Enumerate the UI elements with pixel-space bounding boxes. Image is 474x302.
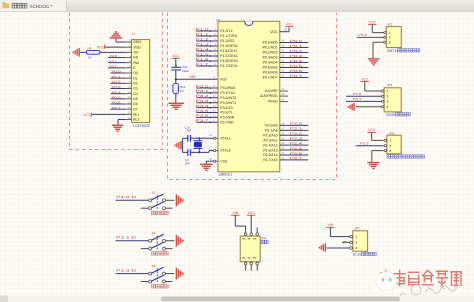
svg-text:25: 25 [281, 137, 284, 140]
svg-text:D2: D2 [133, 82, 138, 86]
svg-text:P2.0/A8: P2.0/A8 [265, 124, 278, 128]
svg-text:P3.2: P3.2 [196, 94, 210, 98]
wire XTAL2 net [183, 151, 214, 154]
svg-text:P2.3/A11: P2.3/A11 [263, 138, 277, 142]
svg-text:VIN: VIN [328, 223, 334, 227]
pin 29 PSEN stub [280, 99, 288, 102]
svg-text:P0.4: P0.4 [112, 90, 121, 94]
svg-text:P0.3: P0.3 [290, 54, 303, 58]
svg-text:JP1: JP1 [387, 83, 393, 87]
svg-text:22uF: 22uF [182, 69, 189, 73]
svg-text:P2.0: P2.0 [110, 54, 118, 58]
svg-text:VO: VO [133, 51, 138, 55]
svg-text:3: 3 [355, 246, 357, 250]
svg-text:3: 3 [389, 40, 391, 44]
svg-text:P1.2/ECI: P1.2/ECI [220, 39, 234, 43]
svg-text:P2.1: P2.1 [290, 127, 303, 131]
wire RST net [176, 78, 218, 80]
svg-text:P0.7/AD7: P0.7/AD7 [263, 76, 278, 80]
ui tab bar [0, 0, 474, 12]
wire P1.1 [196, 32, 219, 37]
wire P1.5 [196, 52, 219, 57]
svg-text:10: 10 [128, 86, 131, 89]
svg-text:P0.1: P0.1 [112, 75, 121, 79]
capacitor C9 [185, 149, 191, 165]
svg-text:34: 34 [281, 65, 284, 68]
wire LCD BL2 [118, 120, 126, 125]
svg-text:P3.3: P3.3 [196, 99, 210, 103]
wire P2.0 [280, 122, 309, 126]
svg-text:VCC: VCC [97, 45, 105, 49]
svg-text:P2.1: P2.1 [110, 59, 118, 63]
svg-text:P0.2/AD2: P0.2/AD2 [263, 51, 278, 55]
ground (VSS) [200, 164, 213, 171]
svg-text:35: 35 [281, 60, 284, 63]
wire P0.5 [280, 64, 309, 68]
connector JP3 [384, 131, 401, 154]
ground (JP2) [368, 58, 380, 65]
wire LCD D7 net P0.7 [111, 106, 126, 110]
svg-text:VCC: VCC [172, 54, 180, 58]
svg-text:P2.4/A12: P2.4/A12 [263, 143, 277, 147]
svg-text:VCC: VCC [270, 30, 278, 34]
wire JP2 pin2 net P3.2 [357, 33, 384, 37]
svg-text:36: 36 [281, 55, 284, 58]
svg-text:P0.0: P0.0 [290, 39, 303, 43]
svg-text:P1.4/CEX1: P1.4/CEX1 [220, 49, 237, 53]
svg-text:P1.1: P1.1 [196, 32, 210, 36]
svg-text:2: 2 [355, 241, 357, 245]
resistor R8 [87, 46, 101, 59]
svg-text:P3.5/T1: P3.5/T1 [220, 111, 232, 115]
ground arrow (JP7) [319, 243, 326, 252]
wire LCD GND [116, 41, 126, 43]
svg-text:P1.4: P1.4 [196, 47, 210, 51]
power port VCC (JP4) [247, 211, 255, 233]
wire P2.7 [280, 156, 309, 160]
svg-text:11: 11 [213, 90, 216, 93]
svg-text:14: 14 [128, 106, 131, 109]
svg-text:P0.1: P0.1 [290, 44, 303, 48]
svg-text:S2: S2 [152, 231, 156, 235]
svg-text:40: 40 [284, 29, 287, 32]
svg-text:VCC: VCC [248, 211, 256, 215]
svg-text:12: 12 [213, 95, 216, 98]
svg-text:VCC: VCC [286, 22, 294, 26]
pin 9 RST stub [214, 76, 216, 79]
svg-text:15: 15 [213, 110, 216, 113]
svg-text:P0.5/AD5: P0.5/AD5 [263, 66, 278, 70]
svg-text:P2.2/A10: P2.2/A10 [263, 133, 277, 137]
svg-text:P3.3/INT1: P3.3/INT1 [220, 101, 236, 105]
wire P2.5 [280, 146, 309, 150]
label relay module [387, 155, 425, 158]
svg-text:P2.7/A15: P2.7/A15 [263, 158, 277, 162]
svg-text:P3.7: P3.7 [196, 119, 210, 123]
wire P3.3 [196, 99, 219, 104]
wire JP4 pin3 stub [256, 227, 258, 233]
svg-text:1: 1 [389, 31, 391, 35]
svg-text:VCC: VCC [361, 77, 369, 81]
wire LCD VDD [105, 46, 125, 48]
wire LCD RS net P2.0 [108, 54, 126, 58]
svg-text:21: 21 [281, 157, 284, 160]
svg-text:4: 4 [387, 105, 389, 109]
connector JP1 [382, 83, 402, 112]
svg-text:24: 24 [281, 142, 284, 145]
svg-text:33: 33 [281, 70, 284, 73]
wire JP1 pin3 net P3.1 [346, 97, 382, 101]
svg-text:P1.2: P1.2 [196, 37, 210, 41]
svg-text:BL1: BL1 [133, 113, 139, 117]
svg-text:P2.1/A9: P2.1/A9 [265, 129, 278, 133]
wire P0.4 [280, 59, 309, 63]
svg-text:P0.6: P0.6 [112, 101, 121, 105]
svg-text:23: 23 [281, 147, 284, 150]
svg-text:D3: D3 [133, 87, 138, 91]
wire P0.3 [280, 54, 309, 58]
resistor R11 [173, 79, 186, 93]
svg-text:P2.2: P2.2 [290, 132, 303, 136]
svg-text:D0: D0 [133, 71, 138, 75]
svg-text:P3.7/RD: P3.7/RD [220, 121, 234, 125]
svg-text:P1.1 D: P1.1 D [116, 236, 138, 240]
svg-text:LCD1602: LCD1602 [133, 123, 151, 128]
svg-text:1: 1 [355, 235, 357, 239]
svg-text:16: 16 [213, 115, 216, 118]
wire P3.2 [196, 94, 219, 99]
svg-text:38: 38 [281, 45, 284, 48]
svg-text:P0.6: P0.6 [290, 69, 303, 73]
wire LCD D1 net P0.1 [111, 75, 126, 79]
wire JP3 pin1 [372, 139, 384, 141]
svg-text:R8: R8 [88, 46, 92, 50]
svg-text:EA/VPP: EA/VPP [265, 89, 278, 93]
wire JP1 pin4 [356, 106, 382, 108]
wire LCD D3 net P0.3 [111, 85, 126, 89]
svg-text:P3.4: P3.4 [196, 104, 210, 108]
svg-text:29: 29 [281, 99, 284, 102]
svg-text:HC05: HC05 [386, 113, 395, 117]
svg-text:28: 28 [281, 123, 284, 126]
svg-text:PSEN: PSEN [268, 100, 278, 104]
svg-text:32: 32 [281, 75, 284, 78]
svg-text:P1.2: P1.2 [360, 142, 369, 146]
connector J7 LCD1602 [126, 32, 151, 128]
svg-text:P1.0/T2: P1.0/T2 [220, 29, 232, 33]
watermark gray signature [400, 285, 463, 296]
pin 19 XTAL1 [209, 134, 218, 139]
svg-text:JP2: JP2 [387, 23, 393, 27]
svg-text:P1.7: P1.7 [196, 62, 210, 66]
wire XTAL1 net [183, 137, 214, 139]
ground (JP3) [367, 162, 379, 169]
svg-text:VIN: VIN [232, 211, 238, 215]
wire P3.1 [196, 89, 219, 94]
wire LCD D5 net P0.5 [111, 95, 126, 99]
svg-text:JP3: JP3 [389, 131, 395, 135]
svg-text:JP4: JP4 [261, 236, 267, 240]
wire LCD BL1 [92, 113, 126, 115]
svg-text:P2.3: P2.3 [290, 136, 303, 140]
wire P3.0 [196, 84, 219, 89]
wire JP7 pin1 [330, 233, 349, 237]
ground (LCD BL2) [112, 125, 124, 132]
wire P1.6 [196, 57, 219, 62]
svg-text:RS: RS [133, 56, 139, 60]
svg-text:P0.0/AD0: P0.0/AD0 [263, 41, 278, 45]
svg-text:P3.6: P3.6 [196, 114, 210, 118]
svg-text:2: 2 [389, 144, 391, 148]
svg-text:P3.2/INT0: P3.2/INT0 [220, 96, 236, 100]
pin 20 VSS [209, 158, 218, 162]
svg-text:1: 1 [387, 89, 389, 93]
power port VIN (JP4) [231, 211, 239, 218]
svg-text:XTAL2: XTAL2 [220, 149, 230, 153]
svg-text:30: 30 [281, 93, 284, 96]
power port VCC (LCD BL1) [83, 113, 91, 118]
crystal Y1 [193, 138, 202, 152]
wire crystal ground rail [182, 138, 184, 152]
svg-text:P3.1: P3.1 [196, 89, 210, 93]
wire P1.0 [196, 27, 219, 32]
svg-text:18: 18 [209, 147, 212, 150]
svg-text:P3.1/TxD: P3.1/TxD [220, 91, 235, 95]
svg-text:15: 15 [128, 112, 131, 115]
wire P1.4 [196, 47, 219, 52]
svg-text:30P: 30P [185, 161, 190, 165]
svg-text:P1.5: P1.5 [196, 52, 210, 56]
svg-text:R11: R11 [180, 85, 185, 89]
wire C15 to RST node [175, 70, 177, 80]
wire P3.5 [196, 109, 219, 114]
svg-text:VDD: VDD [133, 45, 141, 49]
svg-text:P3.5: P3.5 [196, 109, 210, 113]
wire P0.7 [280, 74, 309, 78]
svg-text:P3.0: P3.0 [353, 92, 362, 96]
wire P2.6 [280, 151, 309, 155]
svg-text:11: 11 [128, 91, 131, 94]
svg-text:P1.3/CEX0: P1.3/CEX0 [220, 44, 237, 48]
svg-text:22: 22 [281, 152, 284, 155]
svg-text:P2.6/A14: P2.6/A14 [263, 153, 277, 157]
svg-text:D1: D1 [133, 76, 138, 80]
svg-text:S1: S1 [152, 191, 156, 195]
wire JP2 pin3 [373, 42, 384, 58]
wire P0.6 [280, 69, 309, 73]
wire P2.2 [280, 132, 309, 136]
pin 31 EA stub [280, 88, 288, 91]
svg-text:P1.7/CEX4: P1.7/CEX4 [220, 64, 237, 68]
svg-text:P0.3/AD3: P0.3/AD3 [263, 56, 278, 60]
ground arrow (LCD VO) [73, 48, 80, 57]
svg-text:JP7: JP7 [354, 226, 360, 230]
wire P0.1 [280, 44, 309, 48]
switch JP4 [240, 233, 268, 271]
push button S1 [116, 191, 184, 215]
wire P0.2 [280, 49, 309, 53]
svg-text:P1.6: P1.6 [196, 57, 210, 61]
svg-text:RST: RST [220, 78, 228, 82]
svg-text:P3.0/RxD: P3.0/RxD [220, 86, 235, 90]
wire P1.3 [196, 42, 219, 47]
svg-text:37: 37 [281, 50, 284, 53]
svg-text:VCC: VCC [368, 128, 376, 132]
label DC5V power port [353, 252, 377, 256]
svg-text:P0.6/AD6: P0.6/AD6 [263, 71, 278, 75]
svg-text:D7: D7 [133, 107, 138, 111]
wire P2.1 [280, 127, 309, 131]
capacitor C15 [171, 65, 188, 73]
svg-text:at89c51: at89c51 [219, 173, 233, 177]
capacitor C10 [185, 126, 192, 142]
svg-text:P0.4/AD4: P0.4/AD4 [263, 61, 278, 65]
svg-text:P1.3 D: P1.3 D [116, 268, 138, 272]
svg-text:VSS: VSS [220, 159, 228, 163]
svg-text:P0.2: P0.2 [290, 49, 303, 53]
svg-text:GND: GND [133, 40, 141, 44]
svg-text:XTAL1: XTAL1 [220, 136, 230, 140]
svg-text:13: 13 [213, 100, 216, 103]
power port VCC (JP2) [368, 20, 376, 32]
ground (reset) [168, 103, 184, 110]
svg-text:P2.2: P2.2 [110, 64, 118, 68]
power port VCC (LCD VDD) [97, 45, 105, 50]
svg-text:P0.4: P0.4 [290, 59, 303, 63]
svg-text:P2.5/A13: P2.5/A13 [263, 148, 277, 152]
wire JP3 pin3 [372, 151, 384, 162]
svg-text:DC5V: DC5V [353, 253, 363, 257]
svg-text:P2.5: P2.5 [290, 146, 303, 150]
svg-text:19: 19 [209, 134, 212, 137]
wire LCD E net P2.2 [108, 64, 126, 68]
power port VCC (reset) [172, 54, 180, 67]
wire VSS [206, 161, 213, 163]
svg-text:31: 31 [281, 88, 284, 91]
svg-text:REF: REF [190, 75, 196, 79]
svg-text:3: 3 [387, 100, 389, 104]
wire P3.6 [196, 114, 219, 119]
svg-text:P1.6/CEX3: P1.6/CEX3 [220, 59, 237, 63]
ground arrow (crystal) [174, 141, 181, 150]
wire P3.4 [196, 104, 219, 109]
wire JP7 pin2 stub [342, 241, 349, 242]
svg-text:P1.5/CEX2: P1.5/CEX2 [220, 54, 237, 58]
svg-text:P3.1: P3.1 [353, 97, 362, 101]
svg-text:P2.6: P2.6 [290, 151, 303, 155]
svg-text:1: 1 [389, 139, 391, 143]
svg-text:14: 14 [213, 105, 216, 108]
svg-text:P0.3: P0.3 [112, 85, 121, 89]
svg-text:P2.0: P2.0 [290, 122, 303, 126]
mcu U4 at89c51 [216, 18, 279, 177]
svg-text:39: 39 [281, 40, 284, 43]
wire LCD RW net P2.1 [108, 59, 126, 63]
ui horizontal scrollbar [0, 295, 474, 302]
ground (LCD GND pin) [110, 31, 123, 42]
svg-text:P0.5: P0.5 [290, 64, 303, 68]
svg-text:17: 17 [213, 120, 216, 123]
svg-text:VCC: VCC [83, 113, 91, 117]
svg-text:P0.7: P0.7 [290, 74, 303, 78]
svg-text:SCHDOC *: SCHDOC * [30, 4, 53, 9]
svg-text:D6: D6 [133, 102, 138, 106]
ground arrow (JP1) [348, 103, 355, 111]
svg-text:DHT11: DHT11 [387, 49, 398, 53]
pin 30 ALE stub [280, 93, 288, 96]
svg-text:BL2: BL2 [133, 118, 139, 122]
svg-text:RW: RW [133, 61, 139, 65]
svg-text:2: 2 [387, 95, 389, 99]
svg-text:ALE/PROG: ALE/PROG [260, 94, 278, 98]
svg-text:16: 16 [128, 117, 131, 120]
label DHT11 module [387, 49, 420, 54]
svg-text:P0.2: P0.2 [112, 80, 121, 84]
wire VCC pin 40 [280, 28, 289, 32]
wire P0.0 [280, 39, 309, 43]
svg-text:10: 10 [213, 85, 216, 88]
svg-text:P3.4/T0: P3.4/T0 [220, 106, 232, 110]
power port VIN (JP7) [326, 223, 334, 233]
svg-text:26: 26 [281, 132, 284, 135]
svg-text:P0.5: P0.5 [112, 95, 121, 99]
svg-text:P3.6/WR: P3.6/WR [220, 116, 234, 120]
wire R11 to ground [175, 94, 177, 103]
wire LCD D4 net P0.4 [111, 90, 126, 94]
svg-text:P3.0: P3.0 [196, 84, 210, 88]
wire JP4 pin1 [235, 218, 245, 233]
svg-text:30P: 30P [186, 129, 191, 133]
wire LCD VO [80, 51, 126, 53]
svg-text:2: 2 [389, 36, 391, 40]
svg-text:P2.4: P2.4 [290, 141, 303, 145]
svg-text:P1.3: P1.3 [196, 42, 210, 46]
svg-text:P1.0: P1.0 [196, 27, 210, 31]
svg-text:P3.2: P3.2 [358, 33, 367, 37]
connector JP2 [384, 23, 402, 48]
net label REF [190, 75, 196, 79]
label HC05 module [386, 113, 410, 118]
wire LCD D0 net P0.0 [111, 70, 126, 74]
wire JP1 pin2 net P3.0 [346, 92, 382, 96]
svg-text:D5: D5 [133, 97, 138, 101]
wire JP7 pin3 [327, 247, 350, 249]
wire LCD D2 net P0.2 [111, 80, 126, 84]
svg-text:13: 13 [128, 101, 131, 104]
wire P1.2 [196, 37, 219, 42]
pin 18 XTAL2 [209, 147, 218, 151]
power port VCC (MCU) [285, 22, 293, 27]
svg-text:P0.0: P0.0 [112, 70, 121, 74]
svg-text:12: 12 [128, 96, 131, 99]
wire P3.7 [196, 119, 219, 124]
svg-text:1K: 1K [180, 89, 184, 93]
wire P2.3 [280, 136, 309, 140]
sheet zone dashed rect right [168, 13, 337, 180]
wire P2.4 [280, 141, 309, 145]
svg-text:D4: D4 [133, 92, 138, 96]
svg-text:P0.1/AD1: P0.1/AD1 [263, 46, 278, 50]
svg-text:27: 27 [281, 127, 284, 130]
wire JP3 pin2 net P1.2 [356, 142, 384, 146]
svg-text:20: 20 [209, 158, 212, 161]
wire LCD D6 net P0.6 [111, 101, 126, 105]
wire P1.7 [196, 62, 219, 67]
svg-text:J7: J7 [132, 32, 136, 36]
wire JP1 pin1 [365, 90, 382, 92]
svg-text:P1.1/T2EX: P1.1/T2EX [220, 34, 238, 38]
svg-text:P0.7: P0.7 [112, 106, 121, 110]
